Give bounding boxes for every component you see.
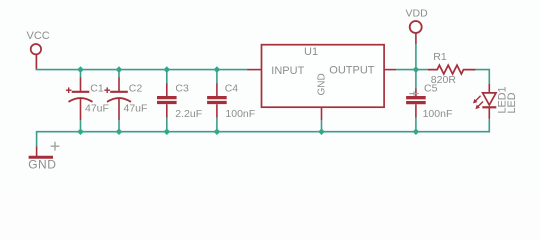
regulator U1 output pin <box>384 69 396 71</box>
svg-text:OUTPUT: OUTPUT <box>329 65 375 77</box>
capacitor C4 <box>207 84 227 118</box>
junction bottom rail at U1 GND <box>318 128 325 135</box>
junction bottom rail at C2 <box>116 128 123 135</box>
svg-text:GND: GND <box>317 73 328 95</box>
wire C1 bottom stub <box>80 120 82 131</box>
svg-text:R1: R1 <box>433 51 447 63</box>
wire R1 to LED1 <box>476 70 490 85</box>
LED1 emission arrow 1 <box>473 96 481 104</box>
svg-text:VDD: VDD <box>406 8 429 20</box>
junction output rail at VDD/C5 <box>413 66 420 73</box>
wire U1 output to R1 <box>396 69 427 71</box>
regulator U1 gnd pin <box>321 107 323 120</box>
wire C3 bottom stub <box>166 118 168 132</box>
LED1 emission arrow 2 <box>475 102 483 110</box>
anchor cross GND <box>51 142 60 151</box>
wire top rail VCC to U1 input <box>36 69 248 71</box>
power flag VDD <box>410 21 422 44</box>
svg-text:C2: C2 <box>129 82 143 94</box>
svg-text:VCC: VCC <box>27 30 50 42</box>
svg-text:C4: C4 <box>225 82 239 94</box>
wire U1 gnd to bottom rail <box>321 120 323 131</box>
junction top rail at C3 <box>164 66 171 73</box>
wire C3 top stub <box>166 70 168 84</box>
junction bottom rail at C5 <box>413 128 420 135</box>
wire C1 top stub <box>80 70 82 78</box>
svg-text:47uF: 47uF <box>85 103 109 115</box>
wire VDD to output rail <box>415 44 417 70</box>
junction bottom rail at C4 <box>214 128 221 135</box>
wire C5 bottom stub <box>415 118 417 132</box>
svg-text:100nF: 100nF <box>423 108 453 120</box>
wire C4 top stub <box>216 70 218 84</box>
junction top rail at C4 <box>214 66 221 73</box>
junction top rail at C2 <box>116 66 123 73</box>
svg-text:INPUT: INPUT <box>271 65 304 77</box>
LED LED1 <box>482 84 496 119</box>
svg-text:C1: C1 <box>90 82 104 94</box>
junction top rail at C1 <box>77 66 84 73</box>
svg-text:820R: 820R <box>431 74 457 86</box>
svg-text:100nF: 100nF <box>225 108 255 120</box>
capacitor C2 polarized <box>104 78 131 121</box>
capacitor C3 <box>157 84 177 118</box>
op-amp U1 body <box>262 45 385 107</box>
svg-text:C3: C3 <box>175 82 189 94</box>
junction bottom rail at C3 <box>164 128 171 135</box>
capacitor C1 polarized <box>66 78 93 121</box>
ground symbol <box>29 147 53 158</box>
junction bottom rail at C1 <box>77 128 84 135</box>
capacitor C5 <box>406 89 426 118</box>
power flag VCC <box>31 44 41 70</box>
wire C2 top stub <box>118 70 120 78</box>
svg-text:U1: U1 <box>304 46 318 58</box>
svg-text:LED: LED <box>506 92 518 113</box>
regulator U1 input pin <box>247 69 261 71</box>
wire bottom rail <box>37 119 490 147</box>
resistor R1 <box>428 65 476 74</box>
anchor cross C5 <box>409 91 418 95</box>
svg-text:GND: GND <box>28 157 56 171</box>
svg-text:2.2uF: 2.2uF <box>175 108 202 120</box>
wire C5 top stub <box>415 70 417 89</box>
wire C4 bottom stub <box>216 118 218 132</box>
wire C2 bottom stub <box>118 120 120 131</box>
svg-text:47uF: 47uF <box>124 103 148 115</box>
